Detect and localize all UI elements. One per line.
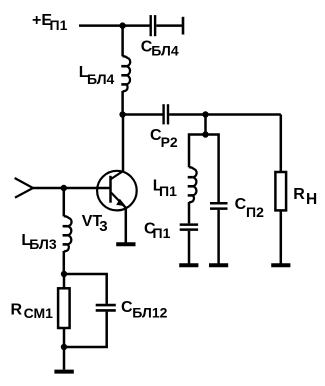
wire tank crossbar xyxy=(189,135,219,203)
label CП1 xyxy=(144,220,171,240)
svg-text:БЛ4: БЛ4 xyxy=(151,42,179,58)
svg-text:R: R xyxy=(11,302,23,319)
svg-text:R: R xyxy=(293,186,305,203)
wire top of parallel RC xyxy=(64,274,107,304)
wire main to RН xyxy=(280,115,283,173)
svg-text:П1: П1 xyxy=(159,183,177,199)
label LП1 xyxy=(153,177,177,199)
node: bias bottom junction xyxy=(61,344,67,350)
capacitor CP2 xyxy=(164,104,168,124)
svg-text:БЛ3: БЛ3 xyxy=(29,236,57,252)
label LБЛ3 xyxy=(21,232,56,252)
wire CP2 to right corner xyxy=(169,113,281,116)
capacitor CБЛ4 xyxy=(151,15,182,36)
label CП2 xyxy=(235,196,264,220)
label CБЛ12 xyxy=(121,299,168,320)
wire RCM1 to bottom junction xyxy=(63,328,66,347)
capacitor CБЛ12 xyxy=(96,305,116,310)
label CP2 xyxy=(150,127,178,150)
capacitor CП2 xyxy=(210,203,228,208)
input arrow xyxy=(15,178,33,198)
chassis terminal bar after CБЛ4 xyxy=(182,17,185,35)
inductor LП1 xyxy=(189,167,197,202)
node: tank junction on main wire xyxy=(202,111,208,117)
inductor LБЛ3 xyxy=(64,216,72,251)
wire base junction to transistor base xyxy=(64,187,110,190)
svg-text:СМ1: СМ1 xyxy=(24,305,54,321)
label VT3 xyxy=(82,213,108,235)
svg-text:3: 3 xyxy=(99,218,107,235)
wire emitter to ground xyxy=(125,208,128,243)
wire mid junction to CP2 xyxy=(123,113,163,116)
wire CП1 to ground xyxy=(188,231,191,264)
wire junction to RCM1 xyxy=(63,274,66,288)
wire RН to ground xyxy=(280,210,283,263)
label LБЛ4 xyxy=(79,64,115,87)
svg-text:С: С xyxy=(235,196,247,213)
wire supply to top junction xyxy=(79,24,150,27)
svg-text:П1: П1 xyxy=(153,225,171,241)
svg-text:БЛ12: БЛ12 xyxy=(132,304,167,320)
svg-text:Н: Н xyxy=(306,191,317,208)
svg-text:П1: П1 xyxy=(50,17,68,33)
transistor VT3 xyxy=(97,171,137,211)
wire bottom of parallel RC xyxy=(64,312,107,347)
wire base junction down to LБЛ3 xyxy=(63,188,66,216)
svg-text:БЛ4: БЛ4 xyxy=(87,71,115,87)
resistor RCM1 xyxy=(58,288,70,328)
wire LП1 to CП1 xyxy=(188,202,191,223)
label CБЛ4 xyxy=(141,39,179,59)
svg-text:С: С xyxy=(121,299,133,316)
wire LБЛ4 to mid junction xyxy=(121,91,124,115)
node: bias top junction xyxy=(61,271,67,277)
ground under RН xyxy=(271,263,290,267)
wire collector xyxy=(122,115,125,172)
ground under emitter xyxy=(116,242,135,246)
label RН xyxy=(293,186,317,208)
capacitor CП1 xyxy=(180,225,198,230)
inductor LБЛ4 xyxy=(123,56,131,91)
svg-text:П2: П2 xyxy=(246,204,264,220)
node +EП1 label xyxy=(32,12,68,33)
resistor RН xyxy=(275,172,286,210)
label RCM1 xyxy=(11,302,54,322)
wire LБЛ3 to bias junction xyxy=(63,251,66,274)
wire bottom junction to ground xyxy=(63,347,66,370)
node: top junction xyxy=(119,22,125,28)
wire CП2 to ground xyxy=(217,210,220,264)
wire input to base junction xyxy=(33,187,64,190)
ground under RCM1 xyxy=(54,370,73,374)
wire tank junction down xyxy=(204,115,207,135)
wire junction down to LБЛ4 xyxy=(121,26,124,57)
ground under CП1 xyxy=(179,263,198,267)
svg-text:Р2: Р2 xyxy=(161,134,178,150)
node: base junction xyxy=(61,185,67,191)
ground under CП2 xyxy=(209,263,228,267)
node: tank crossbar junction xyxy=(202,131,208,137)
node: mid junction (collector node) xyxy=(119,111,125,117)
